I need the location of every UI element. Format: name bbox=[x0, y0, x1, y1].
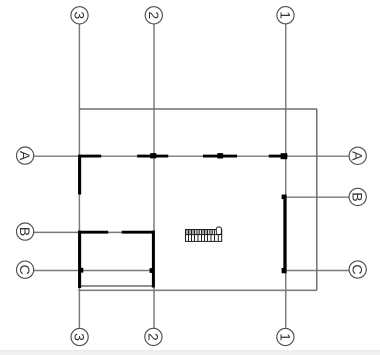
grid bubble A right bbox=[349, 147, 366, 164]
svg-text:3: 3 bbox=[72, 333, 88, 341]
svg-text:C: C bbox=[17, 265, 33, 275]
grid bubble A left bbox=[17, 147, 34, 164]
column at grid1/A bbox=[281, 153, 288, 159]
stair landing tab bbox=[216, 227, 221, 235]
wall: room top dash 1 (grid B) bbox=[78, 231, 108, 234]
grid line B right segment bbox=[286, 196, 350, 198]
grid bubble 2 top bbox=[145, 7, 162, 24]
grid bubble C left bbox=[17, 261, 34, 278]
wall dash 3 on grid A bbox=[203, 155, 237, 158]
building outline right edge bbox=[316, 109, 318, 290]
column at mid/A bbox=[217, 153, 223, 158]
wall: room top dash 2 (grid B) bbox=[122, 231, 155, 234]
wall: right side (grid 1, B to C) bbox=[283, 195, 286, 274]
column at grid1/B bbox=[282, 195, 287, 200]
grid bubble B left bbox=[17, 223, 34, 240]
grid bubble 1 top bbox=[277, 7, 294, 24]
wall dash 1 on grid A bbox=[78, 155, 101, 158]
grid line C left segment bbox=[34, 270, 153, 272]
wall dash 4 on grid A bbox=[269, 155, 288, 158]
window double line at room bottom bbox=[78, 285, 154, 287]
svg-text:A: A bbox=[350, 151, 366, 161]
grid line C right segment bbox=[286, 270, 350, 272]
stair upper flight dense treads bbox=[187, 230, 213, 235]
svg-text:2: 2 bbox=[145, 333, 161, 341]
wall dash 2 on grid A bbox=[137, 155, 168, 158]
grid line 2 (vertical) bbox=[153, 24, 155, 328]
wall: room left (grid 3, B to bottom) bbox=[78, 231, 81, 288]
svg-text:1: 1 bbox=[277, 333, 293, 341]
grid bubble B right bbox=[349, 188, 366, 205]
column at grid2/C bbox=[150, 268, 154, 273]
wall: room right (grid 2, B to bottom) bbox=[152, 231, 155, 288]
grid line 3 (vertical) bbox=[78, 24, 80, 328]
column at grid3/C bbox=[79, 268, 83, 273]
svg-text:A: A bbox=[17, 151, 33, 161]
building outline bottom edge bbox=[78, 289, 317, 291]
wall: upper-left (grid 3, A to below) bbox=[78, 155, 81, 195]
grid bubble 3 bottom bbox=[71, 328, 88, 345]
grid bubble 1 bottom bbox=[277, 328, 294, 345]
grid bubble 3 top bbox=[71, 7, 88, 24]
column at grid2/A bbox=[150, 153, 156, 158]
svg-text:C: C bbox=[350, 264, 366, 274]
grid line B left segment bbox=[34, 231, 155, 233]
grid bubble C right bbox=[349, 261, 366, 278]
bottom strip bbox=[0, 351, 380, 355]
grid line 1 (vertical) bbox=[285, 24, 287, 328]
svg-text:3: 3 bbox=[72, 11, 88, 19]
grid line A (horizontal) bbox=[34, 155, 349, 157]
grid bubble 2 bottom bbox=[145, 328, 162, 345]
svg-text:2: 2 bbox=[146, 11, 162, 19]
stair risers bbox=[189, 230, 219, 242]
svg-text:B: B bbox=[350, 192, 366, 201]
svg-text:1: 1 bbox=[278, 11, 294, 19]
building outline top edge bbox=[79, 108, 317, 110]
stair outline bbox=[186, 230, 222, 242]
column at grid1/C bbox=[282, 268, 287, 273]
svg-text:B: B bbox=[17, 227, 33, 236]
